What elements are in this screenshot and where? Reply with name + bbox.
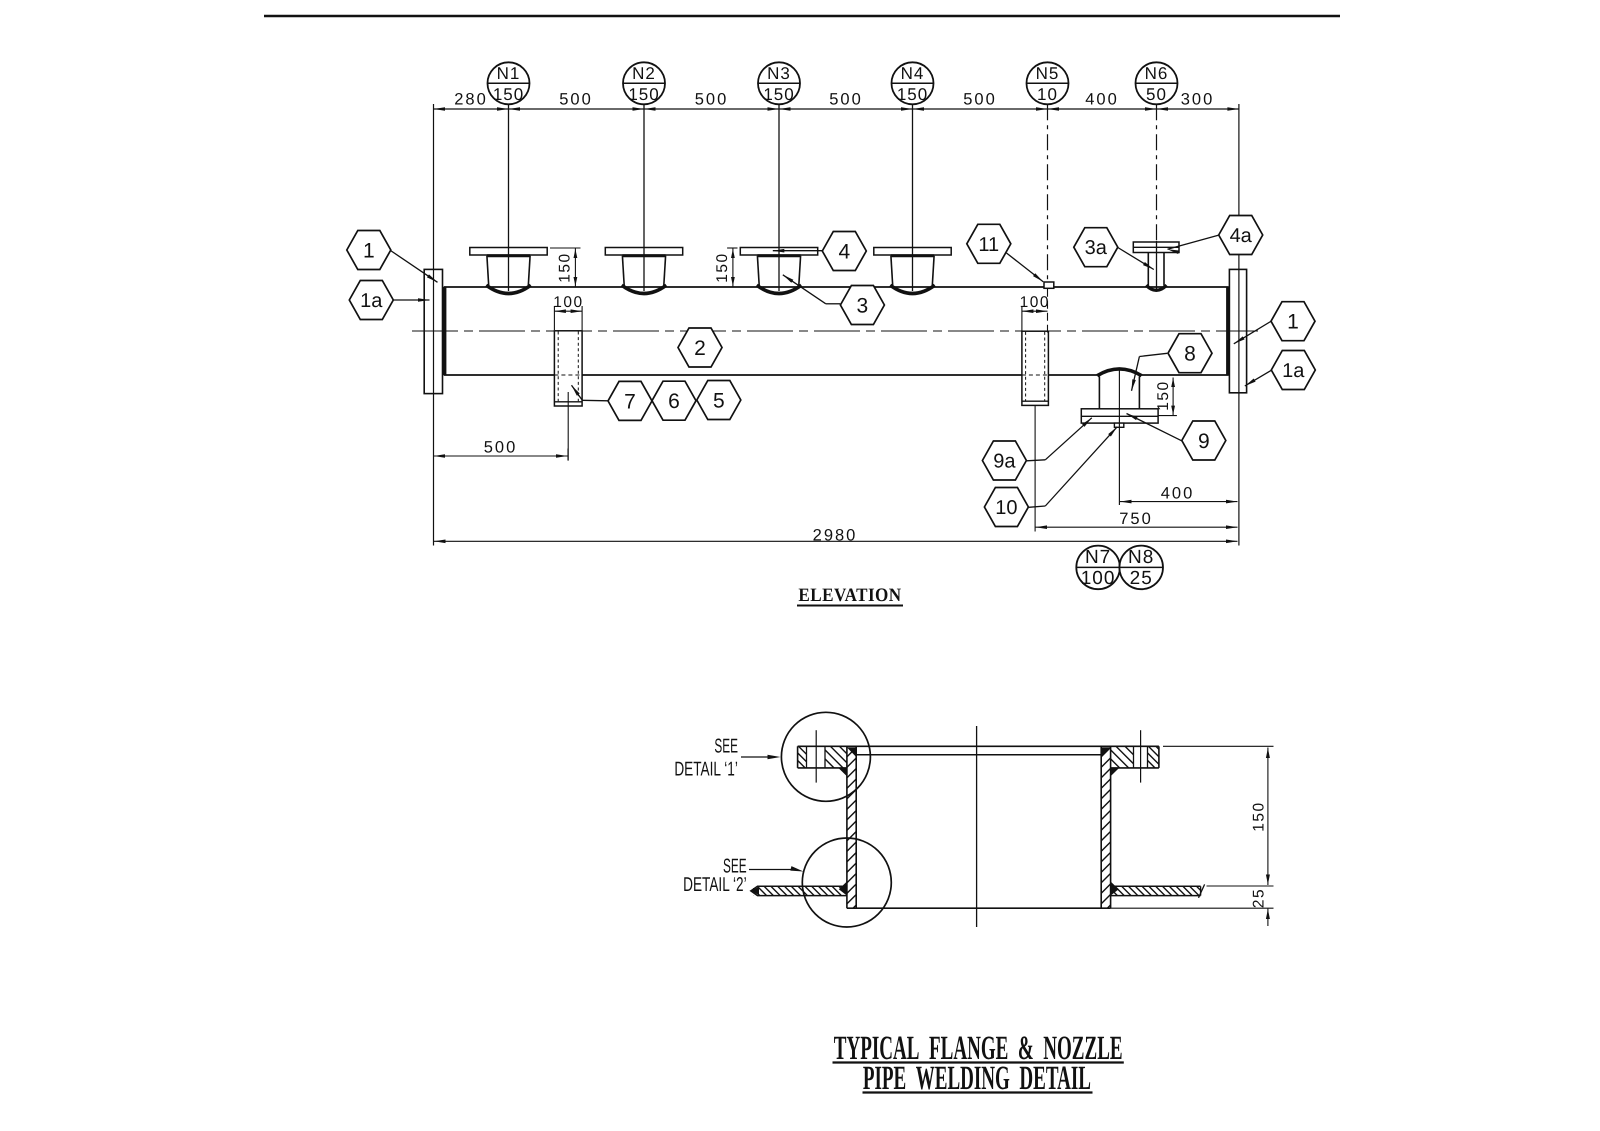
leader to detail circle 2 [749, 869, 793, 871]
svg-text:N1: N1 [497, 64, 521, 83]
balloon callout 1 left [347, 231, 391, 270]
weld fillet flange-right top [1101, 747, 1110, 757]
svg-text:N5: N5 [1036, 64, 1060, 83]
pipe shell top line [444, 286, 1229, 288]
nozzle N1 neck [487, 256, 489, 286]
nozzle N5 weld boss square [1044, 282, 1054, 288]
detail left nozzle wall section [846, 746, 848, 908]
nozzle tag circle N2 [623, 62, 665, 104]
nozzle tag circle N3 [758, 62, 800, 104]
svg-text:100: 100 [1081, 568, 1116, 589]
nozzle N6 flange plate [1133, 242, 1179, 253]
detail left flange ring section [797, 746, 799, 768]
bottom coupling C1 centerline extension [567, 392, 569, 461]
svg-text:150: 150 [1250, 801, 1267, 831]
svg-text:100: 100 [1020, 294, 1050, 311]
nozzle N1 saddle weld arc (thick) [486, 285, 531, 293]
nozzle N6 saddle weld arc (thick) [1146, 285, 1166, 290]
bottom coupling C1 socket line [554, 401, 582, 403]
detail nozzle bottom edge [847, 907, 1111, 909]
balloon callout 9a [982, 441, 1026, 480]
balloon callout 5 [697, 381, 741, 420]
svg-text:500: 500 [963, 91, 997, 109]
svg-text:150: 150 [628, 85, 659, 104]
balloon callout 10 [984, 488, 1028, 527]
leader to item 1 left [391, 251, 438, 283]
svg-text:5: 5 [713, 390, 725, 413]
pipe hidden line inside coupling C1 [554, 374, 582, 376]
svg-text:N8: N8 [1128, 547, 1154, 568]
right end flange F1 [1229, 269, 1246, 392]
svg-text:100: 100 [553, 294, 583, 311]
left end flange F1 [424, 269, 442, 393]
pipe to flange weld left (thick) [443, 287, 447, 375]
balloon callout 3 [840, 286, 884, 325]
nozzle N6 neck [1147, 253, 1149, 286]
dimension 150 (N1 height) [550, 247, 581, 249]
svg-text:N4: N4 [901, 64, 925, 83]
nozzle N5 centerline (dashed) [1047, 104, 1049, 281]
leader to item 9 [1127, 414, 1182, 441]
svg-text:500: 500 [829, 91, 863, 109]
detail flange top face line [798, 745, 1159, 747]
svg-text:1: 1 [1287, 311, 1299, 334]
svg-text:2: 2 [694, 337, 706, 360]
detail right bolt centerline [1140, 730, 1142, 782]
nozzle N2 neck [622, 256, 624, 286]
weld fillet flange-left bottom [838, 768, 847, 776]
nozzle N7 hidden bore lines [1025, 332, 1027, 401]
nozzle N4 saddle weld arc (thick) [890, 285, 935, 293]
leader to item 9a [1027, 460, 1046, 461]
detail circle 2 [802, 838, 891, 927]
leader to item 8 [1139, 353, 1167, 356]
detail vertical centerline [976, 726, 978, 927]
nozzle N1 centerline [508, 104, 510, 291]
balloon callout 1a right [1271, 351, 1315, 390]
bottom coupling C1 body [554, 331, 582, 406]
svg-text:DETAIL ‘2’: DETAIL ‘2’ [683, 874, 746, 896]
nozzle N8 saddle weld arc (thick) [1097, 369, 1141, 376]
dimension 2980 (overall) [434, 540, 1238, 542]
nozzle tag circle N7 [1076, 546, 1120, 590]
weld fillet pipe-right [1111, 882, 1119, 896]
nozzle N1 flange plate [470, 248, 547, 256]
svg-text:500: 500 [695, 91, 729, 109]
balloon callout 4 [822, 232, 866, 271]
leader to item 7 [582, 399, 608, 402]
svg-text:150: 150 [493, 85, 524, 104]
nozzle N1 flange-neck weld line (thick) [487, 254, 530, 257]
svg-text:25: 25 [1250, 888, 1267, 908]
detail dimension 25 [1111, 907, 1274, 909]
nozzle N7 centerline [1034, 405, 1036, 531]
pipe shell bottom line [444, 374, 555, 376]
svg-text:7: 7 [624, 390, 636, 413]
nozzle N3 flange-neck weld line (thick) [757, 254, 800, 257]
svg-text:N6: N6 [1145, 64, 1169, 83]
detail right pipe wall section [1111, 885, 1201, 887]
svg-text:500: 500 [559, 91, 593, 109]
nozzle tag circle N4 [892, 62, 934, 104]
balloon callout 1a left [349, 281, 393, 320]
detail dimension 150 [1163, 745, 1274, 747]
pipe hidden line inside coupling N7 [1022, 374, 1049, 376]
svg-text:50: 50 [1146, 85, 1167, 104]
dimension 100 (left coupling) [553, 306, 555, 330]
nozzle tag circle N5 [1027, 62, 1069, 104]
nozzle N2 saddle weld arc (thick) [622, 285, 667, 293]
svg-text:280: 280 [454, 91, 488, 109]
nozzle N3 flange plate [740, 248, 817, 256]
svg-text:400: 400 [1161, 484, 1195, 502]
nozzle N3 neck [757, 256, 759, 286]
balloon callout 9 [1182, 421, 1226, 460]
balloon callout 8 [1168, 334, 1212, 373]
balloon callout 3a [1074, 228, 1118, 267]
nozzle N2 centerline [643, 104, 645, 291]
leader to item 3 [826, 303, 841, 305]
leader to item 4a [1168, 235, 1219, 249]
nozzle N8 neck [1098, 377, 1100, 409]
dimension 750 (N7 position) [1036, 526, 1238, 528]
svg-text:N7: N7 [1085, 547, 1111, 568]
svg-text:4: 4 [838, 241, 850, 264]
weld fillet flange-left top [847, 747, 856, 757]
dimension 400 (N8 position) [1120, 501, 1238, 503]
svg-text:ELEVATION: ELEVATION [798, 585, 901, 606]
detail right flange ring section [1158, 746, 1160, 768]
balloon callout 11 [967, 224, 1011, 263]
svg-text:11: 11 [978, 234, 999, 256]
svg-text:1: 1 [363, 240, 375, 263]
dimension 150 (N3 height) [727, 247, 737, 249]
nozzle N8 flange plate [1081, 409, 1158, 423]
svg-text:300: 300 [1181, 91, 1215, 109]
left dimension extension line [433, 104, 435, 546]
leader to item 1a right [1245, 370, 1272, 386]
nozzle N8 centerline [1118, 369, 1120, 505]
svg-text:150: 150 [763, 85, 794, 104]
svg-text:750: 750 [1119, 510, 1153, 528]
balloon callout 4a [1219, 216, 1263, 255]
leader to item 1a left [394, 299, 430, 301]
svg-text:SEE: SEE [714, 735, 738, 757]
svg-text:150: 150 [1155, 380, 1172, 410]
dimension 500 (left coupling position) [567, 449, 569, 461]
top chain dimension line [434, 108, 1239, 110]
leader to item 4 [773, 250, 823, 252]
detail flange bore line [856, 754, 1101, 756]
nozzle N7 coupling body [1022, 331, 1049, 405]
nozzle tag circle N6 [1136, 62, 1178, 104]
detail right nozzle wall section [1100, 746, 1102, 908]
right dimension extension line [1238, 104, 1240, 546]
bottom coupling C1 hidden bore lines [557, 332, 559, 402]
nozzle N8 stub below flange [1114, 423, 1123, 427]
svg-text:1a: 1a [1282, 360, 1305, 382]
svg-text:8: 8 [1184, 343, 1196, 366]
balloon callout 7 [608, 381, 652, 420]
nozzle N6 centerline (dashed) [1156, 104, 1158, 241]
svg-text:10: 10 [995, 497, 1017, 519]
svg-text:10: 10 [1037, 85, 1058, 104]
svg-text:150: 150 [557, 252, 574, 282]
nozzle N4 flange plate [874, 248, 951, 256]
svg-text:25: 25 [1130, 568, 1153, 589]
svg-text:150: 150 [714, 252, 731, 282]
leader to item 10 [1029, 506, 1046, 507]
svg-text:9a: 9a [993, 451, 1016, 473]
detail left bolt centerline [815, 730, 817, 782]
svg-text:9: 9 [1198, 430, 1210, 453]
top border line [264, 15, 1340, 17]
nozzle N2 flange-neck weld line (thick) [622, 254, 665, 257]
nozzle N3 saddle weld arc (thick) [757, 285, 802, 293]
svg-text:2980: 2980 [813, 527, 858, 545]
weld fillet pipe-left [839, 882, 847, 896]
nozzle tag circle N8 [1119, 546, 1163, 590]
nozzle N4 neck [891, 256, 893, 286]
svg-text:DETAIL ‘1’: DETAIL ‘1’ [674, 758, 737, 780]
svg-text:1a: 1a [360, 290, 383, 312]
detail circle 1 [781, 712, 870, 801]
svg-text:400: 400 [1085, 91, 1119, 109]
balloon callout 2 [678, 328, 722, 367]
svg-text:6: 6 [668, 390, 680, 413]
svg-text:500: 500 [484, 439, 518, 457]
dimension 100 (N7 coupling) [1021, 306, 1023, 331]
weld fillet flange-right bottom [1111, 768, 1120, 776]
svg-text:3: 3 [857, 295, 869, 318]
svg-text:150: 150 [897, 85, 928, 104]
nozzle N4 centerline [912, 104, 914, 291]
balloon callout 1 right [1271, 302, 1315, 341]
leader to item 11 [1007, 253, 1044, 282]
pipe to flange weld right (thick) [1226, 287, 1230, 375]
svg-text:3a: 3a [1085, 237, 1108, 259]
leader to detail circle 1 [741, 756, 770, 758]
leader to item 1 right [1234, 321, 1271, 344]
detail right pipe wall break tick [1199, 884, 1205, 897]
nozzle N2 flange plate [605, 248, 682, 256]
nozzle N6 centerline through neck [1156, 241, 1158, 291]
balloon callout 6 [652, 381, 696, 420]
dimension 150 (N8 height) [1158, 415, 1177, 417]
nozzle tag circle N1 [488, 62, 530, 104]
nozzle N3 centerline [778, 104, 780, 291]
detail left pipe wall section [751, 886, 847, 895]
svg-text:4a: 4a [1230, 225, 1253, 247]
leader to item 3a [1118, 248, 1154, 270]
svg-text:N2: N2 [632, 64, 656, 83]
nozzle N4 flange-neck weld line (thick) [891, 254, 934, 257]
nozzle N7 socket line [1022, 400, 1049, 402]
pipe centerline [412, 330, 1258, 332]
svg-text:N3: N3 [767, 64, 791, 83]
